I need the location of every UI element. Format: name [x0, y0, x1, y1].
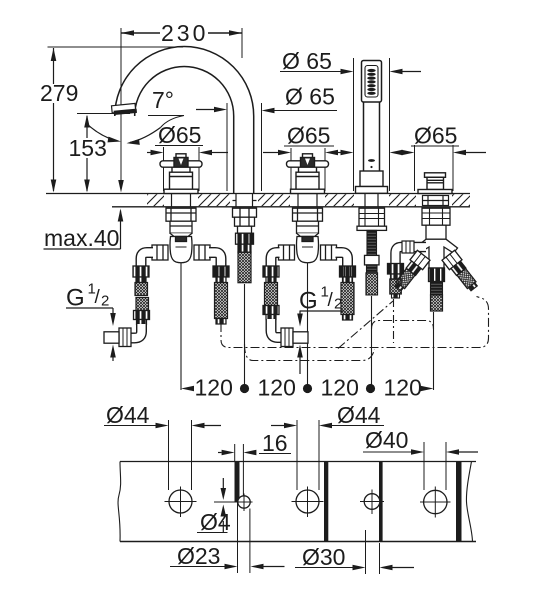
diverter knob	[418, 173, 452, 194]
deck pass-through right handle	[298, 194, 317, 207]
svg-text:120: 120	[258, 375, 296, 401]
svg-text:120: 120	[384, 375, 422, 401]
dimension max.40 (deck thickness)	[44, 209, 124, 252]
hand shower holder base	[356, 171, 388, 193]
label G 1/2 right	[297, 284, 344, 375]
plan hole diverter O40	[420, 487, 451, 518]
dimension O30	[295, 530, 414, 574]
left valve side ports	[152, 245, 210, 260]
plan section bar right of shower	[379, 462, 383, 542]
hand shower handle	[364, 102, 380, 171]
plan section bar right edge	[456, 462, 462, 542]
centre leader lines to 120 row	[181, 262, 434, 390]
diverter right angled hose	[442, 250, 480, 293]
svg-text:2: 2	[101, 293, 109, 310]
svg-text:/: /	[328, 290, 334, 311]
svg-text:279: 279	[40, 80, 78, 106]
dimension row 120x4 hole spacing	[181, 375, 434, 401]
plan hole spout O23	[214, 494, 253, 512]
right handle cross	[287, 154, 329, 194]
right valve right elbow pipe	[336, 253, 356, 321]
hose routing diagonal to diverter elbow	[338, 301, 393, 349]
deck pass-through spout	[233, 194, 257, 207]
dimension 230 (spout reach)	[118, 20, 242, 193]
dimension O65 spout escutcheon	[262, 84, 338, 114]
svg-text:/: /	[95, 287, 101, 308]
svg-text:120: 120	[321, 375, 359, 401]
right valve body below deck	[293, 208, 323, 263]
svg-text:Ø4: Ø4	[200, 509, 231, 535]
hand shower head	[362, 61, 382, 103]
left handle cross	[160, 154, 202, 194]
svg-text:Ø44: Ø44	[337, 402, 381, 428]
spout tail below deck	[233, 208, 257, 283]
hose routing centreline lower	[245, 344, 375, 361]
hand shower spray face dots	[367, 69, 375, 95]
plan hole right handle O44	[292, 487, 324, 518]
diverter centre hose	[429, 268, 445, 311]
hand shower tail below deck	[357, 208, 387, 295]
spout gooseneck tube	[115, 47, 254, 194]
deck pass-through diverter with nut	[423, 196, 449, 206]
hose routing centreline long	[221, 297, 489, 348]
svg-text:Ø65: Ø65	[287, 123, 330, 149]
dimension O40	[363, 427, 478, 490]
dimension O44 right	[271, 402, 384, 490]
svg-text:Ø23: Ø23	[177, 543, 220, 569]
left valve right elbow pipe	[209, 253, 229, 325]
dimension O65 hand shower top	[280, 48, 421, 74]
arrow row y152.5 for escutcheons	[147, 150, 486, 156]
dimension 279 (spout height)	[40, 47, 183, 193]
spout outlet nozzle	[112, 103, 138, 115]
svg-text:16: 16	[262, 430, 288, 456]
dimension 16	[218, 430, 291, 496]
svg-text:230: 230	[161, 20, 208, 46]
extension lines above deck	[164, 58, 454, 191]
plan section bar at spout	[235, 462, 240, 503]
diverter elbow hose continuation	[393, 299, 395, 343]
deck pass-through hand shower	[365, 194, 378, 207]
dimension O23	[170, 503, 285, 574]
diverter left angled hose	[392, 250, 430, 293]
diverter body below deck	[415, 208, 458, 268]
dimension O4	[197, 478, 231, 535]
dimension O65 diverter	[411, 123, 459, 149]
svg-text:Ø30: Ø30	[302, 544, 345, 570]
dimension O44 left	[104, 402, 221, 490]
dimension O65 left handle	[155, 122, 203, 148]
plan hole left handle O44	[165, 487, 197, 518]
dimension 7 deg (spout angle)	[87, 87, 227, 145]
svg-text:Ø44: Ø44	[106, 402, 150, 428]
right valve side ports	[279, 245, 337, 260]
deck bottom line	[112, 206, 470, 208]
dimension O65 right handle	[284, 123, 334, 149]
deck hatching	[147, 194, 470, 206]
svg-text:7°: 7°	[152, 87, 174, 113]
svg-text:Ø65: Ø65	[158, 122, 201, 148]
deck top line	[46, 193, 470, 195]
deck pass-through left handle	[172, 194, 191, 207]
plan hole shower O30	[360, 490, 384, 515]
left valve body below deck	[166, 208, 196, 263]
plan slab outline	[118, 462, 476, 542]
svg-text:Ø 65: Ø 65	[285, 84, 335, 110]
svg-text:120: 120	[195, 375, 233, 401]
svg-text:Ø65: Ø65	[414, 123, 457, 149]
svg-text:max.40: max.40	[44, 225, 119, 251]
diverter upper left elbow	[388, 241, 427, 298]
hose routing bridge shower-diverter	[372, 321, 434, 330]
left G1/2 elbow end fitting	[104, 328, 131, 347]
plan section bar right of handle2	[324, 462, 328, 542]
right G1/2 elbow end fitting	[281, 328, 308, 347]
right valve left elbow pipe	[263, 253, 282, 338]
left valve left elbow pipe	[130, 253, 153, 339]
dimension 153 (outlet height)	[69, 114, 131, 193]
label G 1/2 left	[66, 281, 116, 362]
svg-text:Ø 65: Ø 65	[282, 48, 332, 74]
svg-text:153: 153	[69, 135, 107, 161]
svg-text:Ø40: Ø40	[365, 427, 408, 453]
